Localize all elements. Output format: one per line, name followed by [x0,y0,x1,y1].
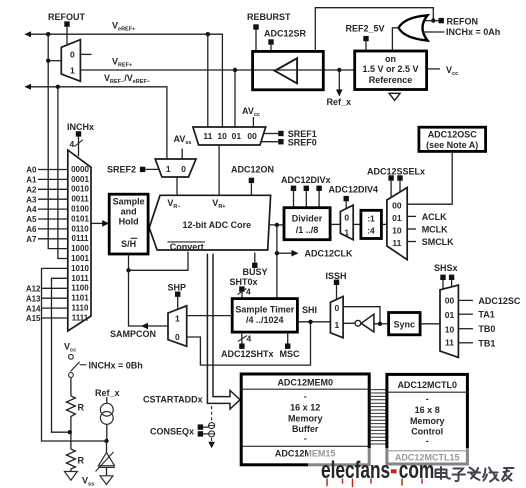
wire SREF1 stub [264,133,279,135]
wire VeREF+ rail [25,31,223,127]
wire A2 [38,188,68,190]
pin SREF1 [278,131,283,136]
mux SREF VR- select [155,159,196,177]
pin REBURST [253,24,258,29]
wire SAMPCON arrowhead [141,323,148,330]
svg-text:INCHx: INCHx [67,122,94,132]
svg-text:A7: A7 [26,235,37,244]
svg-text:ACLK: ACLK [422,212,447,222]
svg-text:SREF2: SREF2 [107,165,136,175]
svg-text:com: com [399,457,435,483]
svg-text:Hold: Hold [119,217,139,227]
wire mux input 0 stub [80,53,91,55]
wire AVcc to mux input 00 [252,117,254,127]
wire REF2_5V to reference [365,41,367,51]
svg-text:A3: A3 [26,195,37,204]
wire sync to junction [380,323,389,325]
svg-text:-: - [426,394,429,404]
svg-text:0: 0 [181,164,186,174]
wire INCHx-mux output arrow into S/H [91,220,109,227]
pin MSC [285,344,290,349]
wire convert path S/H to core [129,252,189,271]
wire big-mux input 01 from VREF+ [234,70,236,127]
wire CONSEQx dashed pointer [208,406,215,448]
wire ADC12CLK down [276,225,278,299]
pin SREF2 [140,167,145,172]
svg-text:ADC12CLK: ADC12CLK [305,248,354,258]
svg-text:/4 ../1024: /4 ../1024 [246,315,284,325]
wire A5 [38,218,68,220]
svg-text:00: 00 [445,295,455,305]
wire small-mux output to core VR- [176,177,178,195]
svg-text:SHP: SHP [168,282,187,292]
wire INCHx control with bus slash 4 [70,137,83,157]
sample timer box [232,299,297,333]
watermark chinese 电子发烧友 [436,467,514,482]
wire rail to INCHx input 1000 [48,34,68,248]
wire DIV4 mux to :1:4 box [353,223,361,225]
node VeREF+/rail1 junction [46,32,50,36]
svg-text:01: 01 [445,310,455,320]
terminal Vcc open circle [69,354,74,359]
wires SHSx control [443,280,452,289]
wire ADC12SC stub [458,299,473,301]
wires ADC12SSELx control [391,181,400,198]
svg-text:0101: 0101 [71,214,89,223]
resistor R2 [66,432,84,471]
svg-text:1: 1 [70,65,75,75]
ground Vss below R2 [65,472,78,481]
svg-text:Sync: Sync [394,319,416,329]
node ADC12CLK label branch [275,251,279,255]
pin INCHx [76,131,81,136]
wire A6 [38,228,68,230]
bus hatch between memory and control [369,390,387,444]
wire mux output to rail [48,60,61,62]
wire ACLK stub [407,215,416,217]
svg-text::4: :4 [367,225,375,235]
svg-text:1001: 1001 [71,254,89,263]
pins SHSx [440,275,445,280]
node temp sensor junction [104,439,108,443]
svg-text:ADC12DIV4: ADC12DIV4 [329,185,379,195]
wire ADC12OSC to mux input 00 [407,151,452,204]
wire ADC12ON to core [250,183,252,195]
wire :1:4 to SSEL mux [381,223,387,225]
svg-text:00: 00 [247,131,257,141]
wires ADC12DIVx to divider [294,191,320,208]
svg-text:INCHx = 0Ah: INCHx = 0Ah [446,27,500,37]
pins CONSEQx [198,424,203,429]
box ADC12OSC [419,127,486,151]
wire SHI to SHP input 0 [187,322,311,365]
svg-text:A2: A2 [26,185,37,194]
pin REF2_5V [363,36,368,41]
node mux output junction [46,59,50,63]
pin BUSY [252,263,257,268]
svg-text:16 x 8: 16 x 8 [415,405,440,415]
svg-text:1: 1 [166,164,171,174]
svg-text:A15: A15 [26,314,41,323]
wire rail2 to INCHx input 1001 [58,87,68,259]
svg-text:ADC12SC: ADC12SC [478,296,521,306]
node CONSEQx taps [208,423,215,437]
wire big-mux output to core VR+ [218,145,220,195]
node divider junction [68,430,72,434]
svg-text:-: - [426,436,429,446]
svg-text:0010: 0010 [71,185,89,194]
divider box /1../8 [284,208,330,240]
wire switch to R1 [70,377,72,396]
wire timer output to SHP input 1 [187,315,233,317]
svg-text:-: - [304,434,307,444]
wire divider rail input 1011 [52,278,68,432]
node SHI branch [308,320,312,324]
ground below diode [100,476,113,485]
wire ADC12CLK label arrow [277,250,299,257]
wire SREF0 stub [261,141,278,143]
node convert junction [126,268,130,272]
node big-mux input 11 junction [206,32,210,36]
svg-text:ADC12MEM0: ADC12MEM0 [277,378,333,388]
svg-text:TA1: TA1 [478,310,494,320]
svg-text:SHI: SHI [302,305,317,315]
reference box 1.5V/2.5V [355,51,427,90]
wire SAMPCON path [129,270,169,326]
svg-text:ADC12DIVx: ADC12DIVx [281,175,331,185]
svg-text:ADC12ON: ADC12ON [231,165,274,175]
wire REFON to pin [423,20,439,22]
svg-text:SREF0: SREF0 [288,137,317,147]
svg-text:0111: 0111 [72,234,89,243]
svg-text:REFON: REFON [447,16,479,26]
svg-text:TB0: TB0 [478,324,495,334]
wire big-mux input 11 [207,34,209,127]
svg-text:0: 0 [70,50,75,60]
node VREF- rail2 junction [56,85,60,89]
svg-text:Ref_x: Ref_x [327,97,352,107]
svg-text:0110: 0110 [71,224,89,233]
svg-text:BUSY: BUSY [243,267,268,277]
wire REFON top rail [315,8,433,52]
svg-text:MSC: MSC [280,349,301,359]
wire REFOUT control [66,27,68,45]
pin ADC12SHTx [239,344,244,349]
svg-text:ADC12MCTL0: ADC12MCTL0 [397,380,457,390]
svg-text:12-bit ADC Core: 12-bit ADC Core [182,220,251,230]
svg-text:1: 1 [335,320,340,330]
svg-text:1.5 V or 2.5 V: 1.5 V or 2.5 V [362,64,418,74]
svg-text:11: 11 [445,338,454,348]
svg-text:1111: 1111 [72,313,89,322]
wire A4 [38,208,68,210]
svg-text:1000: 1000 [71,244,89,253]
svg-text:4: 4 [70,139,75,149]
wire A15 [42,317,68,319]
svg-text:0100: 0100 [71,205,89,214]
svg-text:A14: A14 [26,304,41,313]
svg-text:1011: 1011 [71,274,89,283]
wire TB0 stub [458,328,473,330]
wire A14 [42,307,68,309]
svg-text:on: on [385,54,396,64]
wire A3 [38,198,68,200]
svg-text:Memory: Memory [410,416,445,426]
svg-text:0001: 0001 [71,175,89,184]
current source I1 [100,397,113,441]
svg-text:10: 10 [445,324,455,334]
wire VREF+ line [80,69,354,71]
svg-text:1110: 1110 [72,304,89,313]
adc core 12-bit [149,195,270,252]
svg-text:0: 0 [335,303,340,313]
wire SREF2 to small mux [145,168,159,170]
wire VREF-/VeREF- rail [25,84,167,159]
svg-text:Divider: Divider [292,214,323,224]
svg-text:TB1: TB1 [478,338,495,348]
svg-text:REBURST: REBURST [247,12,291,22]
svg-text:R: R [78,456,85,466]
svg-text:1010: 1010 [71,264,89,273]
mux SREF VR+ select [193,127,266,145]
svg-text:Sample Timer: Sample Timer [235,304,294,314]
svg-text:ISSH: ISSH [326,271,347,281]
pin ADC12SR [268,39,273,44]
svg-text:and: and [121,207,137,217]
wire A7 [38,238,68,240]
wire TB1 stub [458,342,473,344]
or-gate U1 [399,15,428,40]
svg-text:Sample: Sample [113,197,145,207]
mux ISSH [330,296,343,337]
node sync output junction [378,322,382,326]
mux INCHx input select [68,150,91,331]
svg-text:SMCLK: SMCLK [422,237,454,247]
svg-text:00: 00 [392,200,402,210]
wire REBURST to buffer [255,30,257,52]
wire MCLK stub [407,228,416,230]
wire A1 [38,178,68,180]
svg-text:A6: A6 [26,225,37,234]
svg-text:CSTARTADDx: CSTARTADDx [143,395,203,405]
wire BUSY [254,253,256,263]
svg-text:REF2_5V: REF2_5V [346,23,385,33]
svg-text:Control: Control [411,427,443,437]
memory control box ADC12MCTL0-15 [387,374,468,464]
pin SREF0 [278,139,283,144]
wire SMCLK stub [407,241,416,243]
node Ref_x junction [337,68,341,72]
svg-text:11: 11 [203,131,212,141]
svg-text:elecfans: elecfans [321,457,390,483]
svg-text:Ref_x: Ref_x [95,388,120,398]
wire SHP control [177,297,179,310]
pin SHT0x [239,286,244,291]
node REFON junction [431,18,435,22]
wire Vcc stub [427,68,440,70]
wire ISSH control [336,285,338,300]
svg-text:SAMPCON: SAMPCON [110,329,156,339]
wire MSC [287,332,289,343]
wire ADC12SHTx with bus slash 4 [238,332,252,343]
wire A13 [42,297,68,299]
svg-text:4: 4 [247,334,252,344]
svg-text:ADC12SSELx: ADC12SSELx [367,167,425,177]
wire ADC12DIV4 control [345,201,347,208]
wire core to divider [269,224,284,226]
wire SHT0x with bus slash 4 [238,287,252,299]
pin ISSH [334,280,339,285]
svg-text:0011: 0011 [71,195,89,204]
svg-text:10: 10 [392,225,402,235]
svg-text:10: 10 [217,131,227,141]
svg-text:A1: A1 [26,176,37,185]
wire divider to DIV4 mux [330,223,340,225]
svg-text:ADC12OSC: ADC12OSC [428,130,478,140]
svg-text:1100: 1100 [71,284,89,293]
buffer box ADC12SR [253,51,324,89]
svg-text:A4: A4 [26,205,37,214]
watermark overlay [308,448,526,484]
svg-text:0: 0 [344,212,349,222]
wire Ref_x arrow [336,70,343,97]
svg-text:Reference: Reference [369,75,413,85]
wire ISSH mux output SHI [297,321,330,323]
pin ADC12DIV4 [344,196,349,201]
svg-text:0: 0 [175,332,180,342]
wire ISSH input 0 bypass [343,307,380,324]
bus data channel with hollow arrow into memory [207,254,240,409]
sync box [389,313,421,335]
svg-text:CONSEQx: CONSEQx [150,427,194,437]
svg-text:ADC12SR: ADC12SR [264,29,307,39]
diode temperature sensor [96,441,116,476]
ground marker below reference [389,93,400,100]
pin REFOUT [64,21,69,26]
wire A0 [38,169,68,171]
svg-text:11: 11 [392,238,401,248]
node input01 junction [233,68,237,72]
svg-text:/1 ../8: /1 ../8 [296,225,319,235]
resistor R1 [66,396,84,432]
inverter U2 [343,314,380,332]
switch INCHx = 0Bh [69,362,87,378]
svg-text:REFOUT: REFOUT [48,12,86,22]
svg-text:16 x 12: 16 x 12 [290,403,320,413]
svg-text:A12: A12 [26,285,41,294]
buffer amplifier triangle [275,58,297,83]
mux REFOUT select [61,40,80,82]
wires CONSEQx pins to taps [203,427,209,434]
mux ADC12DIV4 [340,205,353,240]
wire TA1 stub [458,313,473,315]
pin REFON [439,18,444,23]
svg-text:1: 1 [344,228,349,238]
wire INCHx=0Ah input [422,31,445,33]
svg-text:A13: A13 [26,294,41,303]
pin SHP [175,292,180,297]
svg-text:INCHx = 0Bh: INCHx = 0Bh [89,360,143,370]
wire ADC12SR to buffer [270,45,272,52]
wire AVss to small mux input 0 [181,149,183,160]
node ADC12CLK branch [275,223,279,227]
pin ADC12ON [249,178,254,183]
svg-text:MCLK: MCLK [422,224,448,234]
svg-text:01: 01 [232,131,242,141]
pins ADC12DIVx [291,186,296,191]
sample and hold box [109,194,148,254]
svg-text:A5: A5 [26,215,37,224]
svg-text:SHSx: SHSx [434,263,458,273]
watermark elecfans.com [321,457,434,486]
svg-text:A0: A0 [26,166,37,175]
svg-text:0000: 0000 [71,165,89,174]
svg-text:1: 1 [175,314,180,324]
svg-text:Memory: Memory [288,414,323,424]
svg-text:-: - [304,392,307,402]
svg-text:ADC12SHTx: ADC12SHTx [221,349,274,359]
svg-text:(see Note A): (see Note A) [426,140,478,150]
svg-text::1: :1 [367,213,375,223]
mux SHP [168,306,187,347]
svg-text:Convert: Convert [170,242,204,252]
svg-text:4: 4 [246,287,251,297]
wire A12 [42,287,68,289]
svg-text:Buffer: Buffer [292,424,319,434]
svg-text:01: 01 [392,213,402,223]
wire SHSx mux output to sync [420,323,440,325]
svg-text:R: R [78,403,85,413]
mux ADC12SSELx [387,188,407,260]
wire or-gate output to reference [392,28,398,51]
memory buffer box ADC12MEM0-15 [241,374,369,465]
wire temp-sensor rail input 1010 [42,268,105,441]
box divide :1 :4 [361,210,382,238]
svg-text:1101: 1101 [71,294,89,303]
mux SHSx [440,285,458,357]
svg-text:SHT0x: SHT0x [230,277,258,287]
pins ADC12SSELx [388,175,393,180]
svg-text:S/H: S/H [121,239,136,249]
